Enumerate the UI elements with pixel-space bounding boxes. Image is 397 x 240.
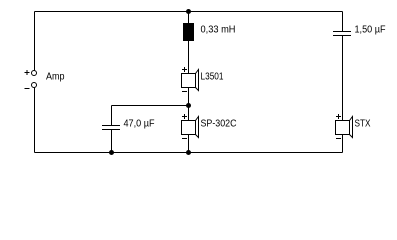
svg-text:L3501: L3501: [201, 71, 224, 82]
svg-text:47,0 µF: 47,0 µF: [124, 118, 155, 129]
svg-text:0,33 mH: 0,33 mH: [201, 24, 236, 35]
svg-text:Amp: Amp: [46, 71, 65, 82]
svg-text:1,50 µF: 1,50 µF: [355, 24, 386, 35]
svg-text:STX: STX: [355, 118, 371, 129]
svg-text:SP-302C: SP-302C: [201, 118, 237, 129]
